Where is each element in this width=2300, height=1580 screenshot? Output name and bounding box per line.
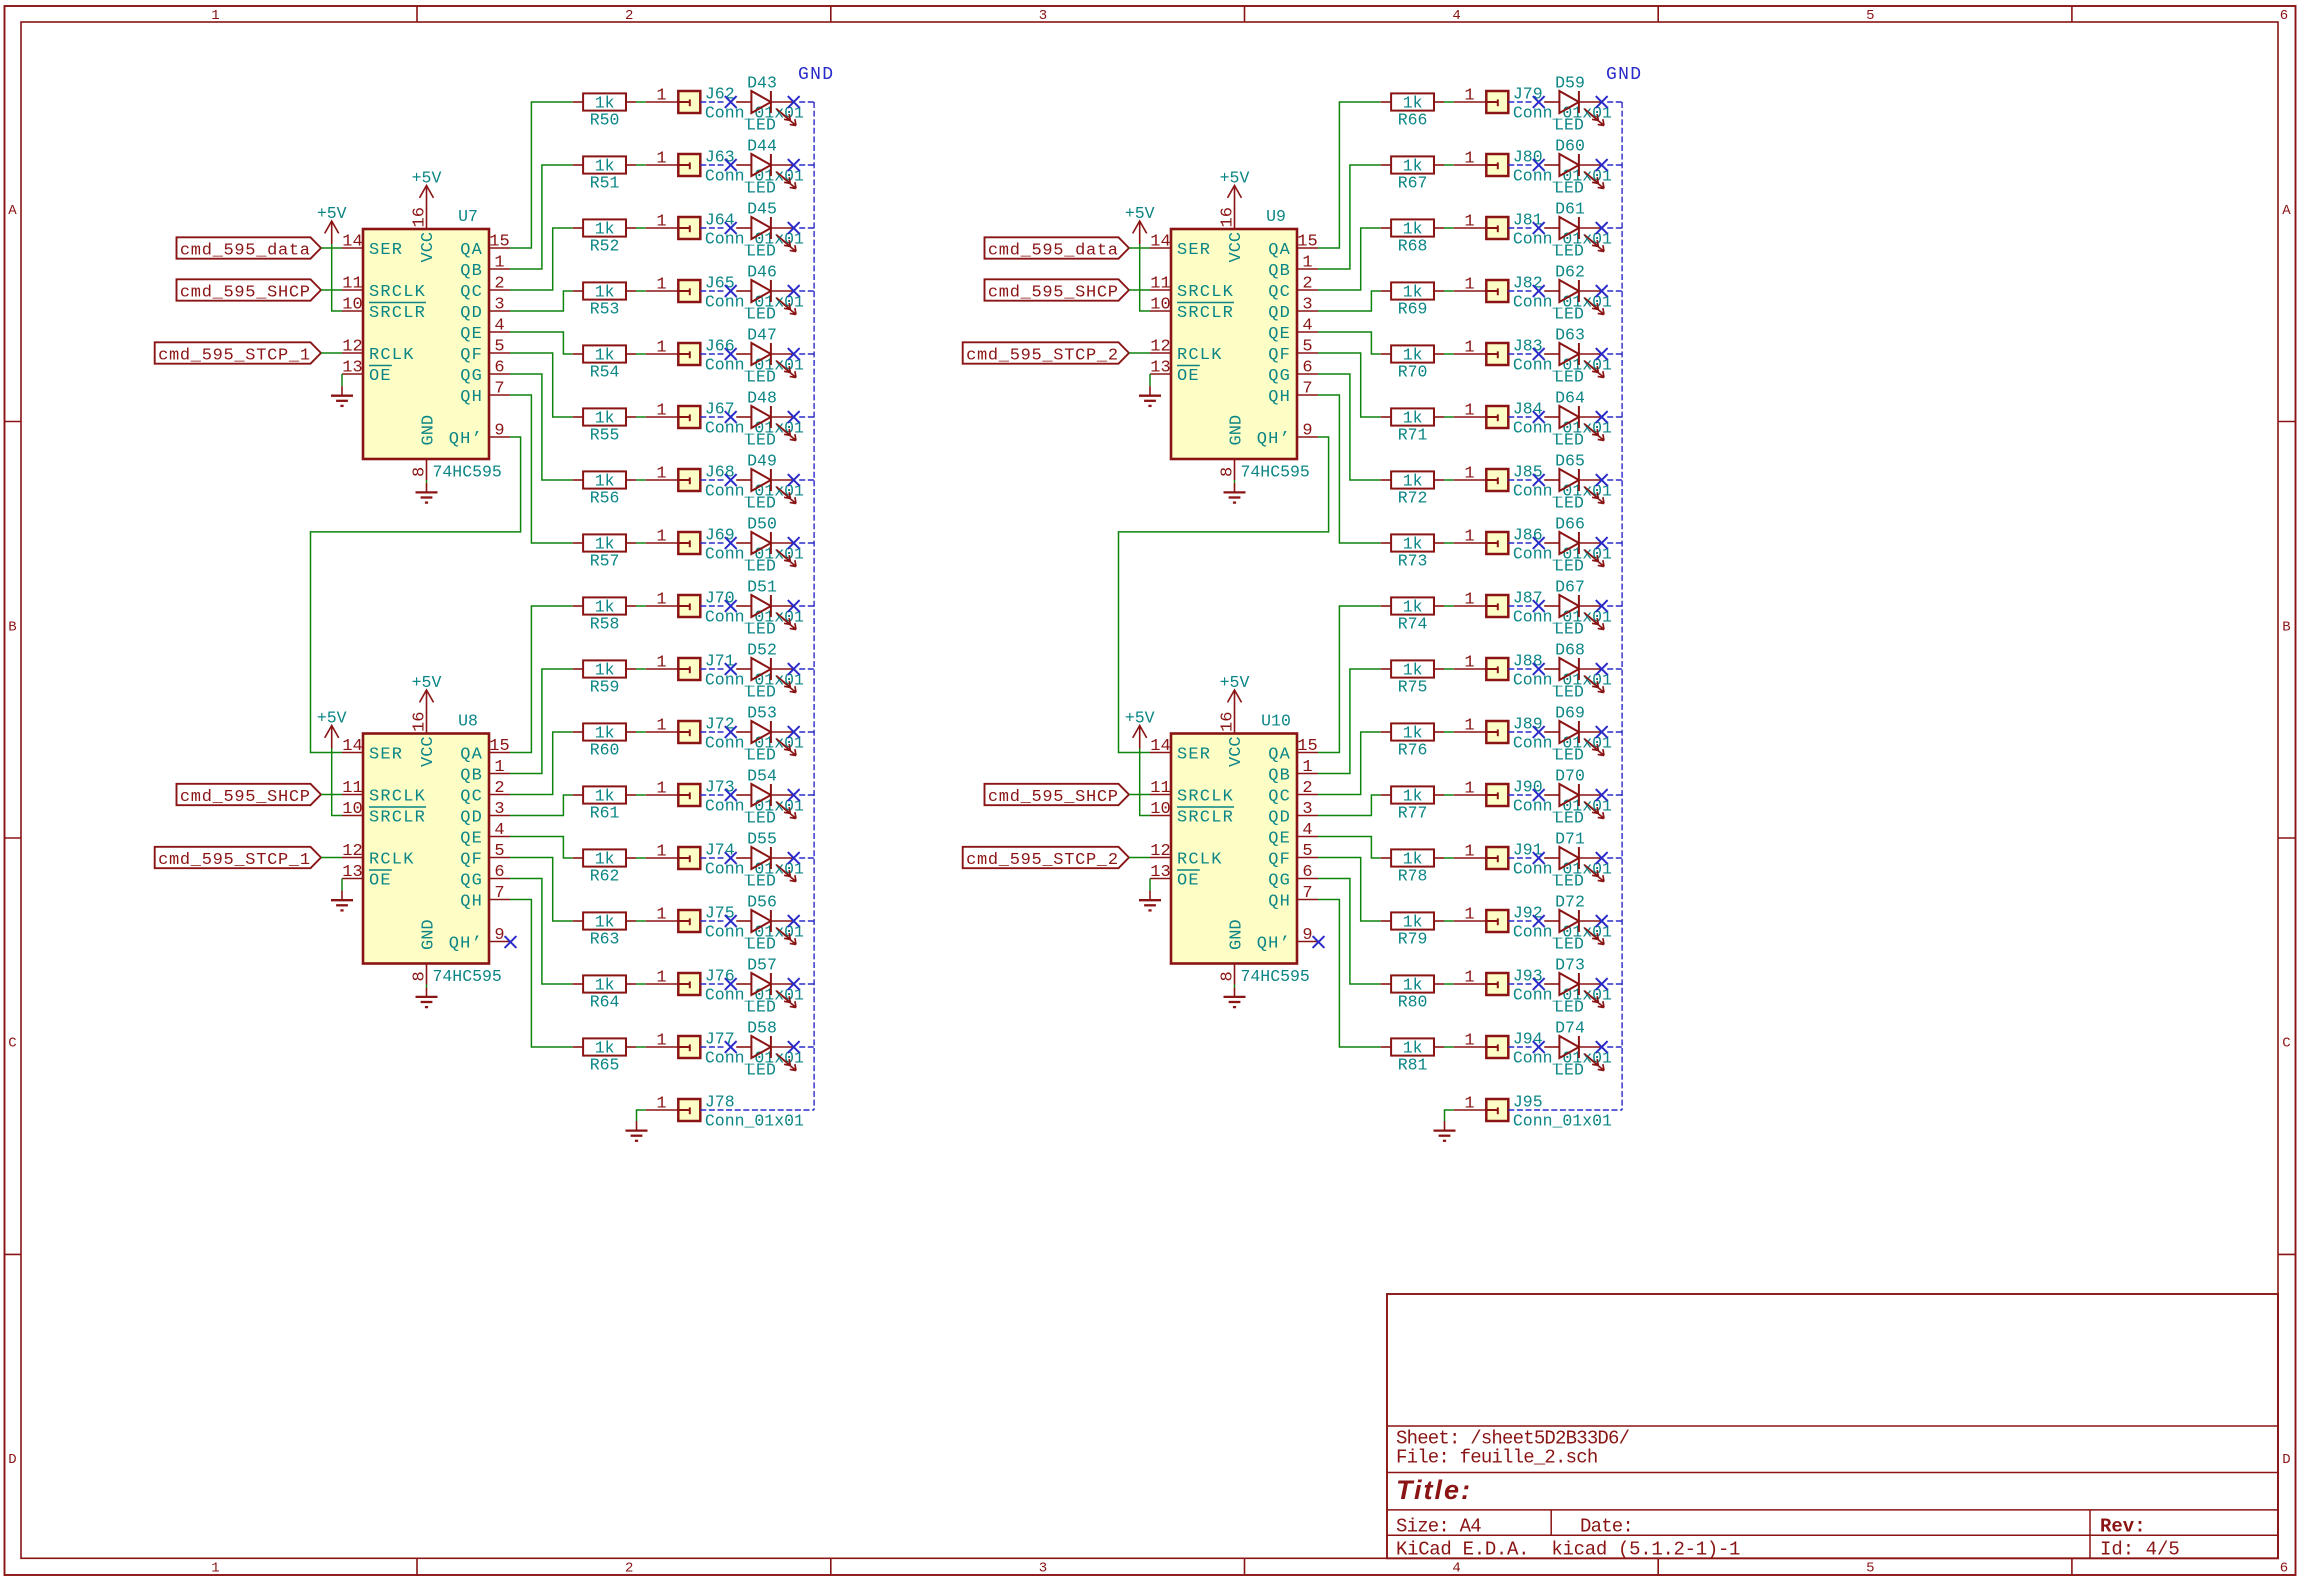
svg-text:R71: R71 bbox=[1398, 426, 1428, 445]
svg-text:VCC: VCC bbox=[1227, 736, 1246, 767]
wire R81 to J94 bbox=[1444, 1046, 1454, 1048]
wire GND pin U7 bbox=[426, 480, 428, 483]
svg-text:U9: U9 bbox=[1266, 207, 1286, 226]
connector J74 Conn_01x01 bbox=[646, 840, 804, 878]
dashed GND bus vertical bbox=[1621, 102, 1623, 1110]
svg-text:7: 7 bbox=[1302, 884, 1312, 903]
svg-text:1: 1 bbox=[656, 969, 666, 988]
hierarchical label cmd_595_STCP_2 bbox=[963, 342, 1129, 365]
resistor R58 1k bbox=[573, 597, 636, 633]
connector J95 Conn_01x01 bbox=[1454, 1092, 1612, 1130]
svg-text:QD: QD bbox=[1268, 809, 1291, 828]
no-connect cathode D56 bbox=[788, 915, 800, 927]
wire QD U10 to R77 bbox=[1318, 795, 1381, 816]
svg-text:R76: R76 bbox=[1398, 741, 1428, 760]
wire QH U7 to R57 bbox=[510, 395, 573, 543]
svg-text:6: 6 bbox=[494, 359, 504, 378]
wire R73 to J86 bbox=[1444, 542, 1454, 544]
svg-text:LED: LED bbox=[746, 1061, 776, 1080]
resistor R76 1k bbox=[1381, 723, 1444, 759]
wire GND pin U10 bbox=[1234, 985, 1236, 988]
svg-text:1: 1 bbox=[1464, 339, 1474, 358]
ground at J78 bbox=[626, 1121, 648, 1141]
svg-text:LED: LED bbox=[746, 431, 776, 450]
no-connect cathode D58 bbox=[788, 1041, 800, 1053]
svg-text:LED: LED bbox=[746, 998, 776, 1017]
svg-text:LED: LED bbox=[746, 494, 776, 513]
svg-text:QE: QE bbox=[460, 325, 483, 344]
svg-text:R70: R70 bbox=[1398, 363, 1428, 382]
wire QB U8 to R59 bbox=[510, 669, 573, 774]
wire +5V to SRCLR U7 bbox=[332, 244, 342, 311]
svg-text:LED: LED bbox=[1554, 557, 1584, 576]
svg-text:5: 5 bbox=[1302, 842, 1312, 861]
no-connect cathode D64 bbox=[1596, 411, 1608, 423]
connector J69 Conn_01x01 bbox=[646, 525, 804, 563]
svg-text:D: D bbox=[8, 1452, 16, 1468]
svg-text:R75: R75 bbox=[1398, 678, 1428, 697]
LED D64 bbox=[1544, 389, 1604, 450]
svg-text:R64: R64 bbox=[590, 993, 620, 1012]
no-connect anode D56 bbox=[725, 915, 737, 927]
dashed GND link row 14 bbox=[1508, 920, 1622, 922]
svg-text:3: 3 bbox=[494, 296, 504, 315]
svg-text:1: 1 bbox=[1464, 1032, 1474, 1051]
connector J77 Conn_01x01 bbox=[646, 1029, 804, 1067]
svg-text:LED: LED bbox=[1554, 683, 1584, 702]
no-connect anode D63 bbox=[1533, 348, 1545, 360]
svg-text:16: 16 bbox=[411, 207, 430, 227]
svg-text:QD: QD bbox=[1268, 304, 1291, 323]
svg-text:QH’: QH’ bbox=[449, 430, 483, 449]
no-connect anode D70 bbox=[1533, 789, 1545, 801]
svg-text:LED: LED bbox=[746, 116, 776, 135]
svg-text:11: 11 bbox=[342, 275, 362, 294]
wire OE U8 to ground bbox=[341, 879, 343, 891]
svg-text:1: 1 bbox=[1464, 528, 1474, 547]
svg-text:D60: D60 bbox=[1555, 137, 1585, 156]
connector J68 Conn_01x01 bbox=[646, 462, 804, 500]
svg-text:3: 3 bbox=[494, 800, 504, 819]
svg-text:QC: QC bbox=[460, 788, 483, 807]
svg-text:D50: D50 bbox=[747, 515, 777, 534]
svg-text:14: 14 bbox=[342, 737, 362, 756]
svg-text:R61: R61 bbox=[590, 804, 620, 823]
svg-text:QB: QB bbox=[460, 767, 483, 786]
hierarchical label cmd_595_STCP_2 bbox=[963, 847, 1129, 870]
svg-text:D58: D58 bbox=[747, 1019, 777, 1038]
svg-text:C: C bbox=[8, 1036, 16, 1052]
svg-text:cmd_595_STCP_2: cmd_595_STCP_2 bbox=[966, 346, 1119, 365]
dashed GND link row 16 bbox=[1508, 1046, 1622, 1048]
power +5V at VCC U8 bbox=[412, 673, 442, 713]
wire R70 to J83 bbox=[1444, 353, 1454, 355]
svg-text:D57: D57 bbox=[747, 956, 777, 975]
svg-text:1: 1 bbox=[656, 906, 666, 925]
no-connect cathode D45 bbox=[788, 222, 800, 234]
svg-text:LED: LED bbox=[746, 935, 776, 954]
connector J81 Conn_01x01 bbox=[1454, 210, 1612, 248]
svg-text:R65: R65 bbox=[590, 1056, 620, 1075]
wire QC U9 to R68 bbox=[1318, 228, 1381, 290]
svg-text:QD: QD bbox=[460, 304, 483, 323]
connector J80 Conn_01x01 bbox=[1454, 147, 1612, 185]
svg-text:LED: LED bbox=[1554, 368, 1584, 387]
svg-text:D70: D70 bbox=[1555, 767, 1585, 786]
no-connect anode D54 bbox=[725, 789, 737, 801]
IC U8 74HC595 shift register bbox=[342, 712, 510, 987]
svg-text:8: 8 bbox=[1219, 467, 1238, 477]
no-connect anode D50 bbox=[725, 537, 737, 549]
svg-text:R60: R60 bbox=[590, 741, 620, 760]
svg-text:+5V: +5V bbox=[1220, 673, 1250, 692]
svg-text:VCC: VCC bbox=[419, 736, 438, 767]
no-connect cathode D62 bbox=[1596, 285, 1608, 297]
resistor R75 1k bbox=[1381, 660, 1444, 696]
svg-text:QG: QG bbox=[460, 367, 483, 386]
svg-text:D52: D52 bbox=[747, 641, 777, 660]
no-connect cathode D61 bbox=[1596, 222, 1608, 234]
dashed GND link row 12 bbox=[1508, 794, 1622, 796]
svg-text:U7: U7 bbox=[458, 207, 478, 226]
wire R71 to J84 bbox=[1444, 416, 1454, 418]
no-connect anode D65 bbox=[1533, 474, 1545, 486]
dashed GND link row 10 bbox=[1508, 668, 1622, 670]
wire +5V to SRCLR U9 bbox=[1140, 244, 1150, 311]
dashed GND link row 11 bbox=[1508, 731, 1622, 733]
svg-text:6: 6 bbox=[2280, 8, 2288, 24]
LED D53 bbox=[736, 704, 796, 765]
svg-text:cmd_595_SHCP: cmd_595_SHCP bbox=[180, 283, 311, 302]
svg-text:1: 1 bbox=[656, 213, 666, 232]
svg-text:7: 7 bbox=[1302, 380, 1312, 399]
no-connect cathode D68 bbox=[1596, 663, 1608, 675]
connector J93 Conn_01x01 bbox=[1454, 966, 1612, 1004]
no-connect cathode D43 bbox=[788, 96, 800, 108]
wire cmd_595_SHCP to SRCLK U10 bbox=[1129, 794, 1150, 796]
resistor R63 1k bbox=[573, 912, 636, 948]
wire cmd_595_STCP_2 to RCLK U9 bbox=[1129, 352, 1150, 354]
svg-text:QG: QG bbox=[1268, 367, 1291, 386]
svg-text:1: 1 bbox=[1464, 276, 1474, 295]
svg-text:U8: U8 bbox=[458, 712, 478, 731]
svg-text:QH’: QH’ bbox=[449, 935, 483, 954]
svg-text:OE: OE bbox=[369, 872, 392, 891]
svg-text:R63: R63 bbox=[590, 930, 620, 949]
wire QG U9 to R72 bbox=[1318, 374, 1381, 480]
no-connect anode D55 bbox=[725, 852, 737, 864]
svg-text:Rev:: Rev: bbox=[2100, 1516, 2146, 1538]
svg-text:SER: SER bbox=[369, 746, 403, 765]
svg-text:D53: D53 bbox=[747, 704, 777, 723]
no-connect QH' U8 bbox=[505, 936, 517, 948]
svg-text:SER: SER bbox=[1177, 746, 1211, 765]
svg-text:1: 1 bbox=[656, 339, 666, 358]
svg-text:D45: D45 bbox=[747, 200, 777, 219]
wire QB U9 to R67 bbox=[1318, 165, 1381, 269]
svg-text:R55: R55 bbox=[590, 426, 620, 445]
title block bbox=[1387, 1294, 2278, 1560]
svg-text:R73: R73 bbox=[1398, 552, 1428, 571]
svg-text:14: 14 bbox=[342, 233, 362, 252]
LED D63 bbox=[1544, 326, 1604, 387]
dashed GND link row 1 bbox=[1508, 101, 1622, 103]
no-connect anode D57 bbox=[725, 978, 737, 990]
wire R76 to J89 bbox=[1444, 731, 1454, 733]
dashed GND link row 8 bbox=[700, 542, 814, 544]
svg-text:1: 1 bbox=[1464, 654, 1474, 673]
dashed GND link row 4 bbox=[1508, 290, 1622, 292]
svg-text:QE: QE bbox=[460, 830, 483, 849]
svg-text:cmd_595_SHCP: cmd_595_SHCP bbox=[988, 788, 1119, 807]
no-connect anode D51 bbox=[725, 600, 737, 612]
wire QE U9 to R70 bbox=[1318, 332, 1381, 354]
no-connect anode D52 bbox=[725, 663, 737, 675]
no-connect anode D47 bbox=[725, 348, 737, 360]
svg-text:+5V: +5V bbox=[412, 169, 442, 188]
svg-text:GND: GND bbox=[798, 65, 834, 85]
svg-text:8: 8 bbox=[411, 467, 430, 477]
svg-text:5: 5 bbox=[1302, 338, 1312, 357]
hierarchical label cmd_595_STCP_1 bbox=[155, 847, 321, 870]
IC U7 74HC595 shift register bbox=[342, 207, 510, 482]
svg-text:6: 6 bbox=[1302, 359, 1312, 378]
svg-text:14: 14 bbox=[1150, 737, 1170, 756]
no-connect anode D73 bbox=[1533, 978, 1545, 990]
svg-text:cmd_595_data: cmd_595_data bbox=[180, 241, 311, 260]
svg-text:1: 1 bbox=[656, 528, 666, 547]
connector J67 Conn_01x01 bbox=[646, 399, 804, 437]
svg-text:RCLK: RCLK bbox=[1177, 346, 1223, 365]
resistor R77 1k bbox=[1381, 786, 1444, 822]
resistor R62 1k bbox=[573, 849, 636, 885]
hierarchical label cmd_595_SHCP bbox=[177, 784, 322, 807]
svg-text:LED: LED bbox=[1554, 998, 1584, 1017]
svg-text:D56: D56 bbox=[747, 893, 777, 912]
svg-text:1: 1 bbox=[656, 654, 666, 673]
svg-text:LED: LED bbox=[746, 620, 776, 639]
no-connect cathode D73 bbox=[1596, 978, 1608, 990]
svg-text:15: 15 bbox=[489, 737, 509, 756]
svg-text:4: 4 bbox=[494, 821, 504, 840]
LED D57 bbox=[736, 956, 796, 1017]
wire +5V to SRCLR U10 bbox=[1140, 749, 1150, 816]
svg-text:1: 1 bbox=[656, 1032, 666, 1051]
wire cmd_595_SHCP to SRCLK U7 bbox=[321, 289, 342, 291]
LED D58 bbox=[736, 1019, 796, 1080]
svg-text:1: 1 bbox=[211, 8, 219, 24]
resistor R54 1k bbox=[573, 345, 636, 381]
svg-text:SER: SER bbox=[369, 241, 403, 260]
svg-text:1: 1 bbox=[1464, 87, 1474, 106]
wire cmd_595_data to SER U7 bbox=[321, 247, 342, 249]
wire QB U10 to R75 bbox=[1318, 669, 1381, 774]
dashed GND link row 13 bbox=[1508, 857, 1622, 859]
no-connect anode D67 bbox=[1533, 600, 1545, 612]
wire R68 to J81 bbox=[1444, 227, 1454, 229]
LED D49 bbox=[736, 452, 796, 513]
svg-text:3: 3 bbox=[1039, 8, 1047, 24]
wire R59 to J71 bbox=[636, 668, 646, 670]
wire R78 to J91 bbox=[1444, 857, 1454, 859]
svg-text:D62: D62 bbox=[1555, 263, 1585, 282]
svg-text:6: 6 bbox=[494, 863, 504, 882]
no-connect cathode D53 bbox=[788, 726, 800, 738]
svg-text:LED: LED bbox=[1554, 746, 1584, 765]
svg-text:1: 1 bbox=[1464, 969, 1474, 988]
svg-text:KiCad E.D.A. kicad (5.1.2-1)-: KiCad E.D.A. kicad (5.1.2-1)-1 bbox=[1396, 1538, 1740, 1560]
svg-text:8: 8 bbox=[411, 971, 430, 981]
dashed GND link row 14 bbox=[700, 920, 814, 922]
hierarchical label cmd_595_STCP_1 bbox=[155, 342, 321, 365]
svg-text:R62: R62 bbox=[590, 867, 620, 886]
svg-text:Size: A4: Size: A4 bbox=[1396, 1516, 1481, 1538]
svg-text:2: 2 bbox=[625, 8, 633, 24]
svg-text:OE: OE bbox=[1177, 367, 1200, 386]
dashed GND link row 1 bbox=[700, 101, 814, 103]
connector J94 Conn_01x01 bbox=[1454, 1029, 1612, 1067]
svg-text:1: 1 bbox=[656, 591, 666, 610]
svg-text:D49: D49 bbox=[747, 452, 777, 471]
svg-text:1: 1 bbox=[211, 1561, 219, 1577]
svg-text:SER: SER bbox=[1177, 241, 1211, 260]
resistor R74 1k bbox=[1381, 597, 1444, 633]
wire R74 to J87 bbox=[1444, 605, 1454, 607]
no-connect QH' U10 bbox=[1313, 936, 1325, 948]
svg-text:QH: QH bbox=[460, 388, 483, 407]
wire QA U7 to R50 bbox=[510, 102, 573, 248]
LED D62 bbox=[1544, 263, 1604, 324]
svg-text:QH: QH bbox=[1268, 893, 1291, 912]
ground at OE U9 bbox=[1139, 386, 1161, 406]
svg-text:1: 1 bbox=[1464, 402, 1474, 421]
no-connect cathode D66 bbox=[1596, 537, 1608, 549]
LED D46 bbox=[736, 263, 796, 324]
no-connect cathode D65 bbox=[1596, 474, 1608, 486]
dashed GND link row 5 bbox=[1508, 353, 1622, 355]
svg-text:15: 15 bbox=[489, 233, 509, 252]
no-connect cathode D63 bbox=[1596, 348, 1608, 360]
svg-text:R59: R59 bbox=[590, 678, 620, 697]
svg-text:1: 1 bbox=[1464, 465, 1474, 484]
svg-text:1: 1 bbox=[656, 402, 666, 421]
svg-text:B: B bbox=[2282, 619, 2290, 635]
wire R79 to J92 bbox=[1444, 920, 1454, 922]
svg-text:LED: LED bbox=[746, 242, 776, 261]
no-connect anode D44 bbox=[725, 159, 737, 171]
svg-text:LED: LED bbox=[746, 872, 776, 891]
resistor R56 1k bbox=[573, 471, 636, 507]
svg-text:LED: LED bbox=[746, 746, 776, 765]
no-connect cathode D52 bbox=[788, 663, 800, 675]
svg-text:RCLK: RCLK bbox=[369, 851, 415, 870]
svg-text:LED: LED bbox=[746, 368, 776, 387]
wire OE U7 to ground bbox=[341, 374, 343, 386]
wire QC U7 to R52 bbox=[510, 228, 573, 290]
svg-text:SRCLK: SRCLK bbox=[1177, 788, 1234, 807]
svg-text:+5V: +5V bbox=[1220, 169, 1250, 188]
svg-text:2: 2 bbox=[625, 1561, 633, 1577]
svg-text:R69: R69 bbox=[1398, 300, 1428, 319]
dashed GND bus vertical bbox=[813, 102, 815, 1110]
svg-text:8: 8 bbox=[1219, 971, 1238, 981]
wire R50 to J62 bbox=[636, 101, 646, 103]
wire QH U9 to R73 bbox=[1318, 395, 1381, 543]
no-connect cathode D71 bbox=[1596, 852, 1608, 864]
ground at GND pin U9 bbox=[1224, 483, 1246, 503]
resistor R64 1k bbox=[573, 975, 636, 1011]
svg-text:VCC: VCC bbox=[419, 232, 438, 263]
no-connect cathode D74 bbox=[1596, 1041, 1608, 1053]
svg-text:GND: GND bbox=[1606, 65, 1642, 85]
svg-text:GND: GND bbox=[1228, 919, 1247, 950]
wire QC U10 to R76 bbox=[1318, 732, 1381, 795]
svg-text:File: feuille_2.sch: File: feuille_2.sch bbox=[1396, 1446, 1597, 1468]
svg-text:1: 1 bbox=[656, 843, 666, 862]
wire QA U10 to R74 bbox=[1318, 606, 1381, 753]
no-connect anode D68 bbox=[1533, 663, 1545, 675]
svg-text:QB: QB bbox=[460, 262, 483, 281]
svg-text:3: 3 bbox=[1039, 1561, 1047, 1577]
svg-text:QG: QG bbox=[1268, 872, 1291, 891]
svg-text:R56: R56 bbox=[590, 489, 620, 508]
wire OE U9 to ground bbox=[1149, 374, 1151, 386]
svg-text:GND: GND bbox=[420, 415, 439, 446]
connector J92 Conn_01x01 bbox=[1454, 903, 1612, 941]
svg-text:D69: D69 bbox=[1555, 704, 1585, 723]
wire R75 to J88 bbox=[1444, 668, 1454, 670]
connector J89 Conn_01x01 bbox=[1454, 714, 1612, 752]
svg-text:LED: LED bbox=[1554, 494, 1584, 513]
LED D55 bbox=[736, 830, 796, 891]
wire GND pin U9 bbox=[1234, 480, 1236, 483]
svg-text:1: 1 bbox=[1302, 758, 1312, 777]
svg-text:D44: D44 bbox=[747, 137, 777, 156]
svg-text:A: A bbox=[2282, 203, 2291, 219]
svg-text:Title:: Title: bbox=[1396, 1475, 1472, 1505]
no-connect anode D53 bbox=[725, 726, 737, 738]
svg-text:QG: QG bbox=[460, 872, 483, 891]
power +5V at VCC U7 bbox=[412, 169, 442, 209]
svg-text:74HC595: 74HC595 bbox=[1241, 463, 1310, 482]
no-connect anode D61 bbox=[1533, 222, 1545, 234]
svg-text:LED: LED bbox=[1554, 179, 1584, 198]
hierarchical label cmd_595_data bbox=[985, 237, 1130, 260]
no-connect cathode D60 bbox=[1596, 159, 1608, 171]
wire R60 to J72 bbox=[636, 731, 646, 733]
svg-text:D54: D54 bbox=[747, 767, 777, 786]
LED D73 bbox=[1544, 956, 1604, 1017]
svg-text:D67: D67 bbox=[1555, 578, 1585, 597]
svg-text:LED: LED bbox=[1554, 935, 1584, 954]
svg-text:5: 5 bbox=[1866, 1561, 1874, 1577]
wire R77 to J90 bbox=[1444, 794, 1454, 796]
svg-text:R81: R81 bbox=[1398, 1056, 1428, 1075]
svg-text:D46: D46 bbox=[747, 263, 777, 282]
ground at OE U8 bbox=[331, 891, 353, 911]
svg-text:R54: R54 bbox=[590, 363, 620, 382]
wire QD U9 to R69 bbox=[1318, 291, 1381, 311]
wire R80 to J93 bbox=[1444, 983, 1454, 985]
LED D47 bbox=[736, 326, 796, 387]
connector J62 Conn_01x01 bbox=[646, 84, 804, 122]
svg-text:+5V: +5V bbox=[1125, 709, 1155, 728]
svg-text:D61: D61 bbox=[1555, 200, 1585, 219]
svg-text:1: 1 bbox=[656, 1095, 666, 1114]
wire R57 to J69 bbox=[636, 542, 646, 544]
no-connect cathode D57 bbox=[788, 978, 800, 990]
LED D45 bbox=[736, 200, 796, 261]
